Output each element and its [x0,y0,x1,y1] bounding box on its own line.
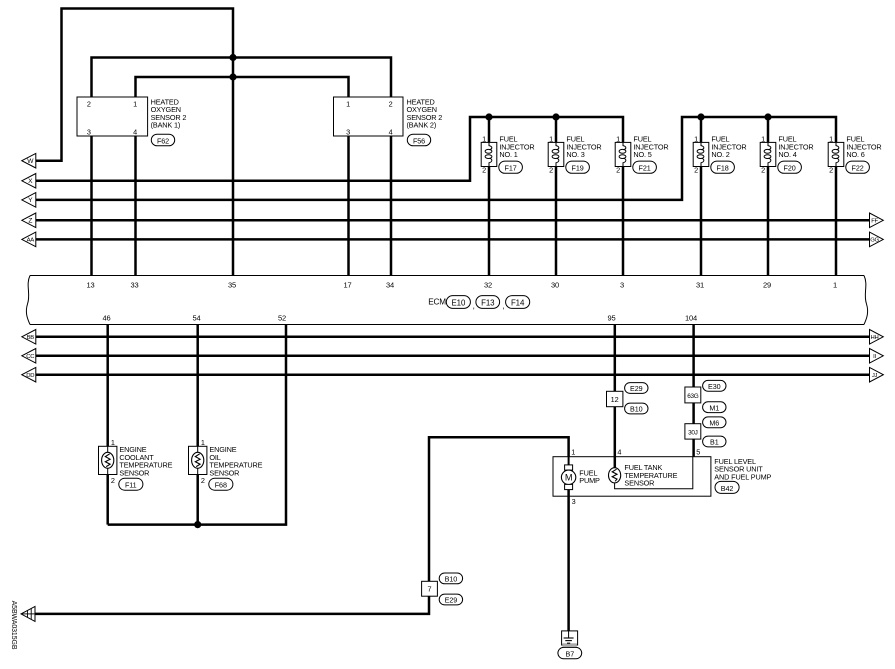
wire BB bus to arrow HH [36,336,870,339]
svg-text:1: 1 [111,438,115,447]
connector F17 [499,161,523,173]
svg-text:F11: F11 [125,481,137,490]
svg-text:B1: B1 [710,438,719,447]
svg-text:34: 34 [386,280,394,289]
off-page arrow HH [870,330,884,345]
svg-text:GG: GG [870,238,879,244]
svg-text:32: 32 [484,280,492,289]
wire F56 pin3 to ECM pin 17 [347,136,350,276]
svg-text:2: 2 [694,166,698,175]
wire fuel pump supply from bottom arrow through connector 7 to pin 1 [35,437,569,614]
svg-text:B7: B7 [566,649,575,658]
node junction heater B+ wire 1 [229,54,236,61]
svg-text:B10: B10 [630,405,643,414]
svg-text:NO. 5: NO. 5 [633,150,651,159]
svg-text:2: 2 [111,476,115,485]
connector box 12 (E29/B10) [607,391,623,406]
svg-text:30: 30 [551,280,559,289]
node junction injector no.2 [697,113,704,120]
fuel pump motor M [561,457,600,490]
svg-text:E30: E30 [708,382,721,391]
svg-text:M1: M1 [709,403,719,412]
svg-text:NO. 4: NO. 4 [778,150,796,159]
svg-text:63G: 63G [687,393,699,400]
svg-text:F68: F68 [215,481,227,490]
svg-text:F19: F19 [572,164,584,173]
svg-text:3: 3 [572,497,576,506]
wire heater supply to HO2S pins 1 [136,77,349,97]
connector B10 [625,403,648,414]
wire AA bus to arrow GG [36,238,870,241]
node junction injector no.1 [485,113,492,120]
svg-text:1: 1 [549,135,553,144]
wire Y bus to injector bank 2 supply [36,117,836,200]
svg-text:E29: E29 [445,596,458,605]
svg-text:AA: AA [27,238,35,244]
wire DD bus to arrow JJ [36,373,870,376]
wire F62 pin3 to ECM pin 13 [90,136,93,276]
svg-text:1: 1 [694,135,698,144]
svg-text:30J: 30J [688,429,698,436]
wire injector NO. 1 pin2 to ECM [488,167,491,276]
svg-text:F13: F13 [481,299,495,308]
wire F56 pin4 to ECM pin 34 [390,136,393,276]
svg-text:CC: CC [26,354,35,360]
svg-text:SENSOR: SENSOR [209,468,239,477]
connector B1 [703,436,726,447]
svg-text:DD: DD [26,373,34,379]
svg-text:1: 1 [761,135,765,144]
wire CC bus to arrow II [36,355,870,358]
connector F56 [407,134,430,146]
svg-text:2: 2 [829,166,833,175]
node junction sensor ground bus [194,521,201,528]
svg-text:B42: B42 [721,484,734,493]
wire connector 12 to fuel tank temp sensor pin 4 [614,407,617,468]
connector F11 [119,478,143,490]
off-page arrow (hatched) fuel pump supply [21,606,35,621]
fuel injector NO. 2 F18 [693,135,746,175]
wire ECM pin 104 to connector 63G [692,325,695,388]
wire X bus to injector bank 1 supply [36,117,623,181]
svg-text:F20: F20 [784,164,796,173]
connector F62 [151,134,174,146]
svg-text:3: 3 [346,127,350,136]
wire ECM pin 46 to ECT sensor pin 1 [106,325,109,447]
connector E10 [446,296,470,309]
fuel injector NO. 3 F19 [548,135,601,175]
wire ECM pin 95 to connector 12 [614,325,617,392]
wire ECM pin 54 to EOT sensor pin 1 [196,325,199,447]
wire injector NO. 6 pin2 to ECM [835,167,838,276]
svg-text:17: 17 [343,280,351,289]
off-page arrow JJ [870,367,884,382]
off-page arrow FF [870,213,884,228]
svg-text:BB: BB [27,335,35,341]
svg-text:F14: F14 [511,299,525,308]
wire injector NO. 5 pin2 to ECM [622,167,625,276]
ECM connector band [26,276,867,325]
off-page arrow DD [22,367,36,382]
off-page arrow AA [22,232,36,247]
svg-text:29: 29 [763,280,771,289]
svg-text:1: 1 [833,280,837,289]
fuel injector NO. 4 F20 [760,135,813,175]
off-page arrow Y [22,193,36,208]
wire injector NO. 2 pin2 to ECM [700,167,703,276]
svg-text:E10: E10 [452,299,466,308]
svg-text:FF: FF [871,219,878,225]
connector E30 [703,380,726,391]
svg-text:F22: F22 [852,164,864,173]
svg-text:1: 1 [201,438,205,447]
off-page arrow CC [22,349,36,364]
wire ECM pin 52 to sensor ground bus [108,325,286,525]
node junction heater B+ wire 2 [229,73,236,80]
svg-text:2: 2 [616,166,620,175]
svg-text:2: 2 [87,99,91,108]
svg-text:7: 7 [427,585,431,594]
svg-text:3: 3 [620,280,624,289]
svg-text:,: , [502,301,504,310]
svg-text:3: 3 [87,127,91,136]
svg-text:1: 1 [346,99,350,108]
svg-text:2: 2 [549,166,553,175]
connector M6 [703,417,726,428]
connector F68 [209,478,233,490]
svg-text:E29: E29 [630,384,643,393]
svg-text:HH: HH [871,335,879,341]
svg-text:SENSOR: SENSOR [624,479,654,488]
svg-text:F17: F17 [505,164,517,173]
wire fuel pump pin 3 to ground B7 [567,490,570,631]
wire Z bus to arrow FF [36,219,870,222]
wire F62 pin4 to ECM pin 33 [134,136,137,276]
svg-text:2: 2 [761,166,765,175]
connector B42 [715,481,739,493]
off-page arrow W [22,153,36,168]
svg-text:A5BWA0315GB: A5BWA0315GB [10,601,17,650]
svg-text:4: 4 [133,127,137,136]
svg-text:2: 2 [482,166,486,175]
wire injector no.2 pin1 drop [700,117,703,142]
svg-text:F56: F56 [413,136,425,145]
fuel tank temperature sensor thermistor [609,463,678,488]
connector box 63G (E30/M1) [685,387,701,403]
wire heater supply to HO2S pins 2 [92,58,392,98]
svg-text:13: 13 [86,280,94,289]
svg-text:31: 31 [696,280,704,289]
node junction injector no.3 [552,113,559,120]
wire W supply: from arrow W up across top down to ECM pin 35 [36,9,233,276]
fuel level sensor unit and fuel pump B42 outer box [553,457,711,497]
fuel tank temperature sensor inner box [615,457,693,489]
svg-text:1: 1 [616,135,620,144]
off-page arrow II [870,349,884,364]
svg-text:M6: M6 [709,418,719,427]
off-page arrow Z [22,213,36,228]
off-page arrow X [22,174,36,189]
connector F22 [846,161,870,173]
svg-text:NO. 3: NO. 3 [566,150,584,159]
svg-text:104: 104 [685,313,697,322]
svg-text:(BANK 2): (BANK 2) [407,121,437,130]
svg-text:4: 4 [617,448,621,457]
wire ECT sensor pin 2 to ground bus [106,475,109,525]
svg-text:AND FUEL PUMP: AND FUEL PUMP [714,473,771,482]
svg-text:SENSOR: SENSOR [119,468,149,477]
heated oxygen sensor 2 (bank 1) F62 [77,97,186,136]
svg-text:,: , [473,301,475,310]
svg-text:ECM: ECM [428,297,446,306]
fuel injector NO. 1 F17 [481,135,534,175]
connector M1 [703,402,726,413]
svg-text:Z: Z [28,218,32,225]
engine coolant temperature sensor F11 [99,438,173,485]
wire injector no.4 pin1 drop [767,117,770,142]
svg-text:1: 1 [133,99,137,108]
svg-text:NO. 1: NO. 1 [499,150,517,159]
svg-text:2: 2 [201,476,205,485]
connector box 7 (B10/E29) [422,581,438,596]
wire injector NO. 3 pin2 to ECM [555,167,558,276]
connector B7 [558,647,582,658]
svg-text:54: 54 [192,313,200,322]
wire connector 63G to connector 30J [692,403,695,424]
connector F14 [506,296,530,309]
wire connector 30J to fuel pump unit pin 5 [692,439,695,457]
off-page arrow GG [870,232,884,247]
fuel injector NO. 5 F21 [615,135,668,175]
heated oxygen sensor 2 (bank 2) F56 [334,97,443,136]
ground B7 [562,631,578,647]
off-page arrow BB [22,330,36,345]
connector F21 [633,161,657,173]
connector box 30J (M6/B1) [685,424,701,439]
svg-text:33: 33 [130,280,138,289]
svg-text:1: 1 [482,135,486,144]
connector E29 [439,594,462,605]
svg-text:35: 35 [228,280,236,289]
connector F19 [566,161,590,173]
svg-text:4: 4 [389,127,393,136]
svg-text:M: M [565,473,573,483]
svg-text:1: 1 [829,135,833,144]
engine oil temperature sensor F68 [189,438,263,485]
svg-text:12: 12 [611,395,619,404]
svg-text:B10: B10 [445,575,458,584]
svg-text:JJ: JJ [872,373,878,379]
fuel injector NO. 6 F22 [828,135,881,175]
wire injector NO. 4 pin2 to ECM [767,167,770,276]
svg-text:NO. 6: NO. 6 [846,150,864,159]
svg-text:1: 1 [571,448,575,457]
fuel level sensor unit label [714,457,771,482]
svg-text:2: 2 [389,99,393,108]
connector F18 [711,161,735,173]
wire EOT sensor pin 2 to ground bus [196,475,199,525]
svg-text:52: 52 [278,313,286,322]
svg-text:F62: F62 [157,136,169,145]
connector E29 [625,383,648,394]
svg-text:5: 5 [696,448,700,457]
svg-text:95: 95 [607,313,615,322]
svg-text:F18: F18 [717,164,729,173]
connector B10 [439,573,462,584]
svg-text:F21: F21 [639,164,651,173]
svg-text:PUMP: PUMP [579,476,600,485]
svg-text:(BANK 1): (BANK 1) [151,121,181,130]
svg-text:NO. 2: NO. 2 [711,150,729,159]
svg-text:46: 46 [102,313,110,322]
wire injector no.3 pin1 drop [555,117,558,142]
wire injector no.1 pin1 drop [488,117,491,142]
node junction injector no.4 [764,113,771,120]
connector F20 [778,161,802,173]
connector F13 [476,296,500,309]
